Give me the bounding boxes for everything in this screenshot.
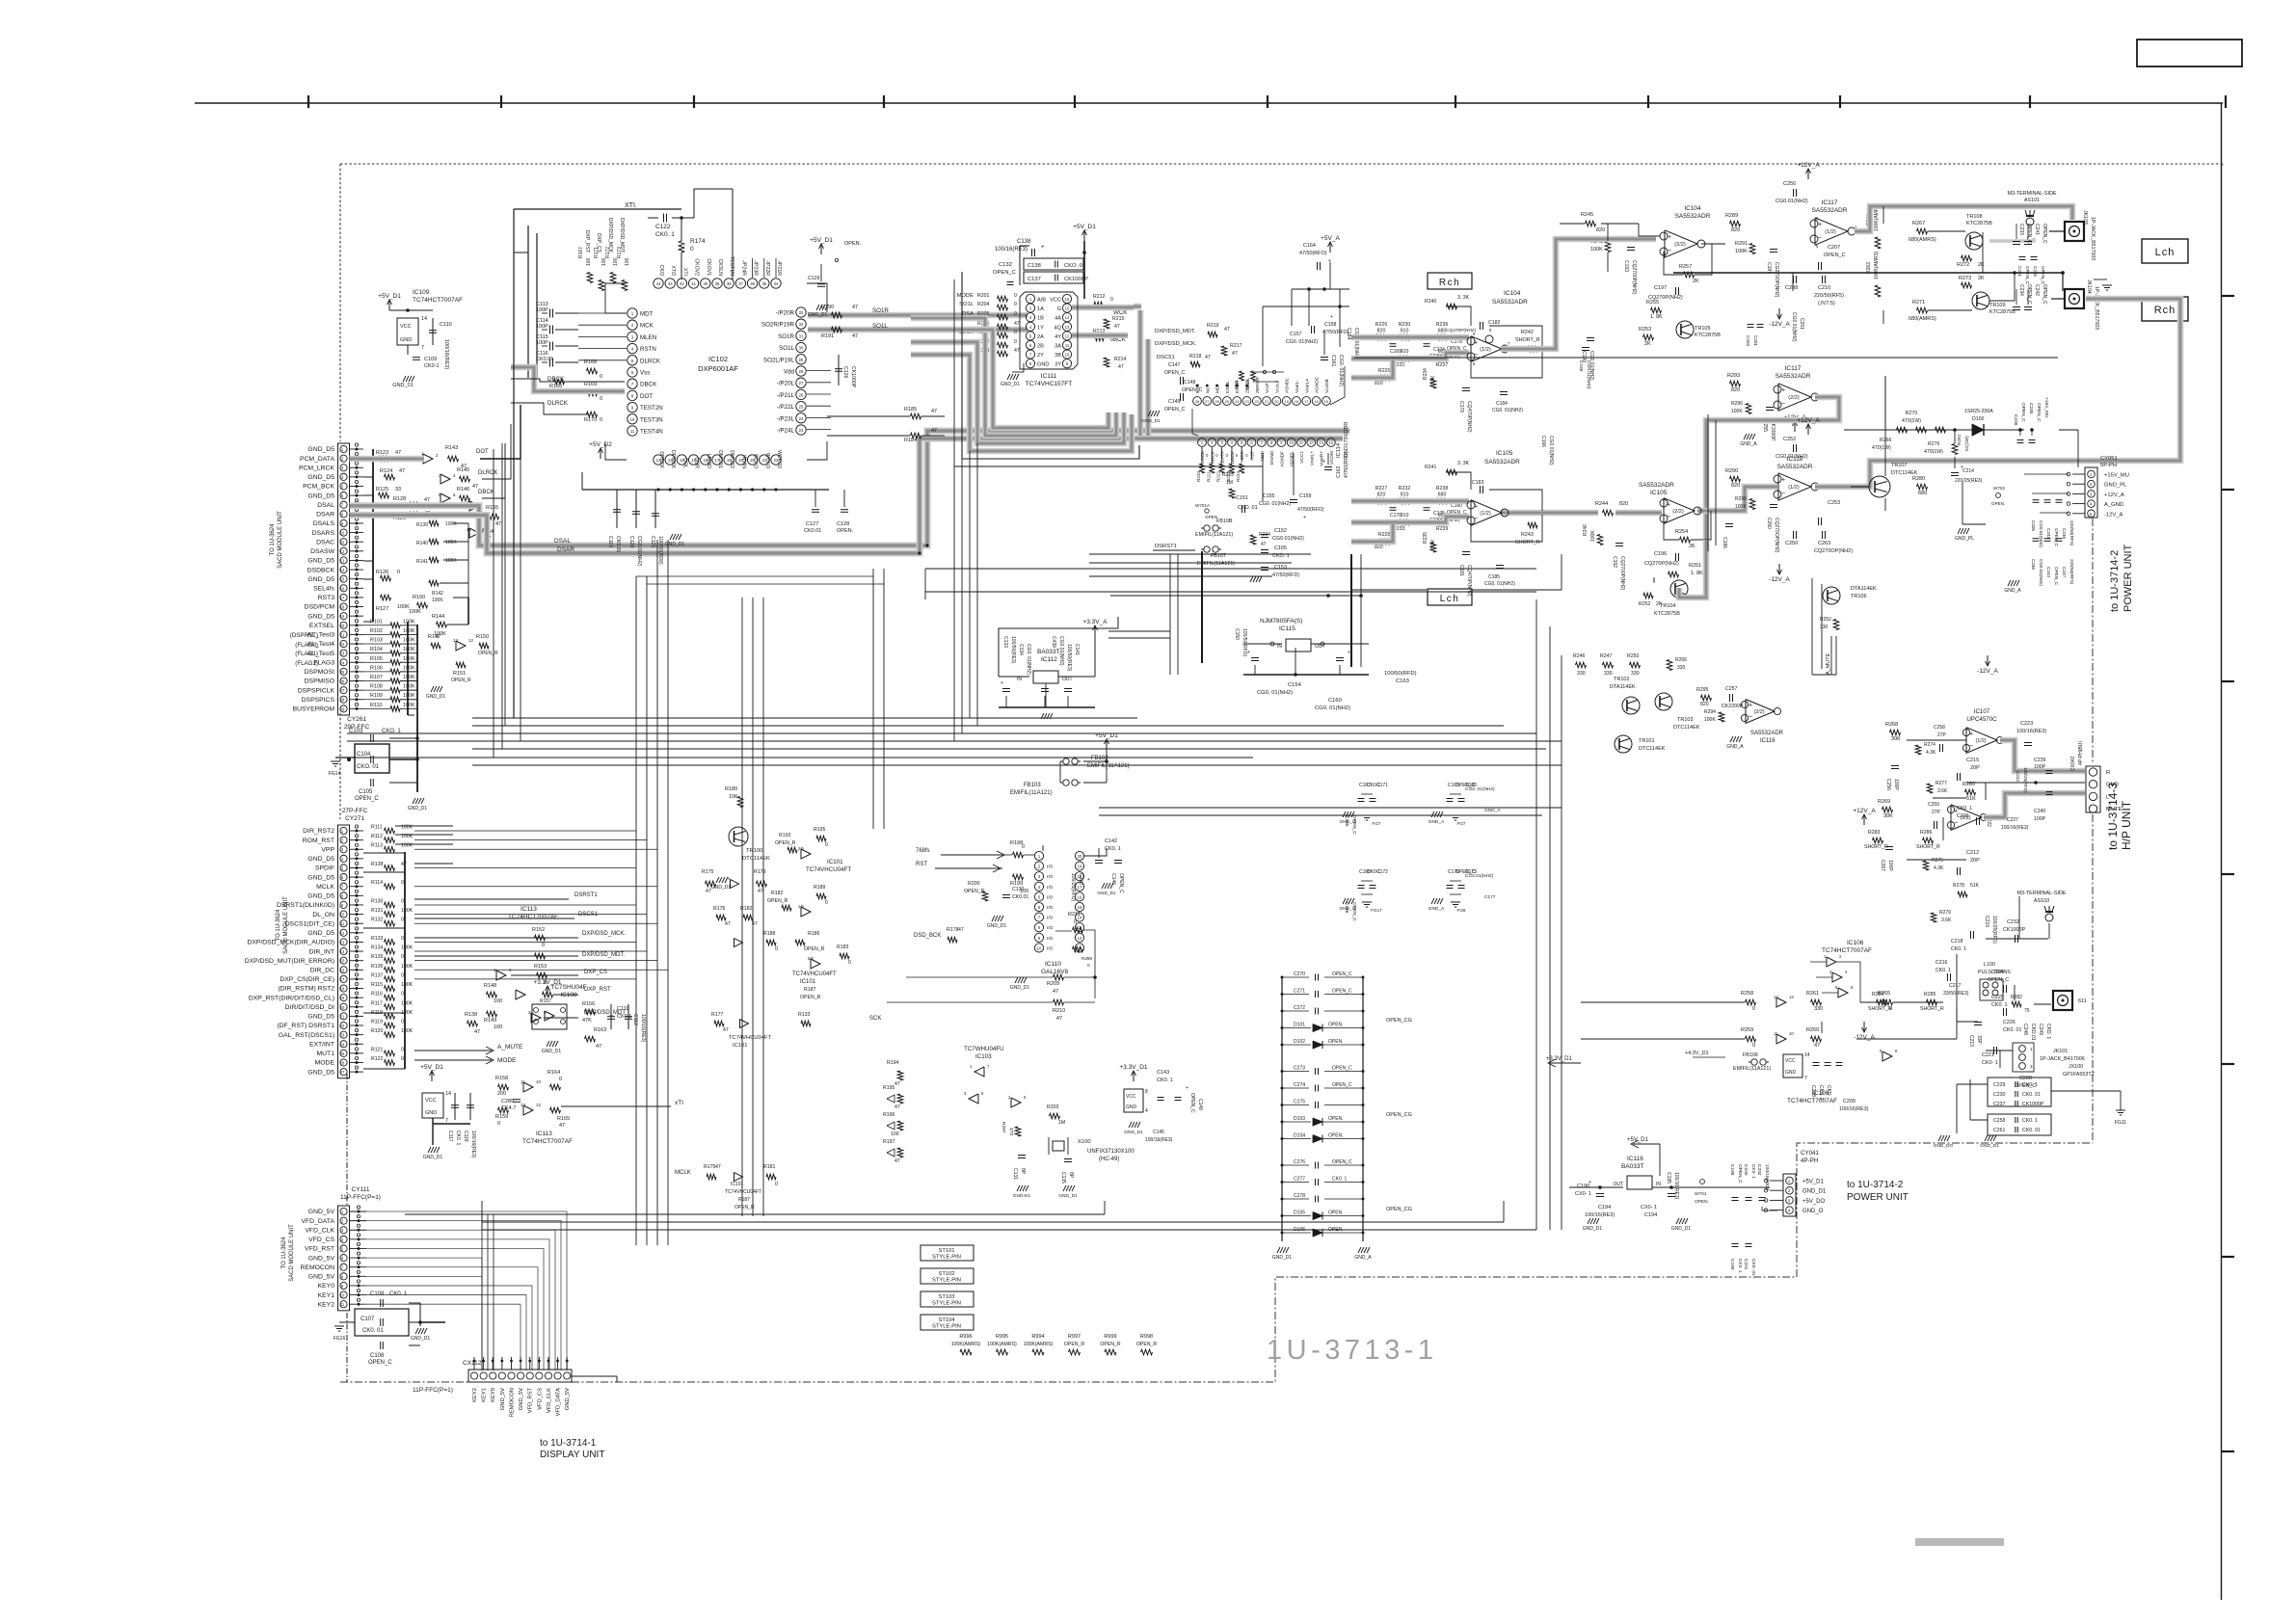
- svg-text:100/50(RFO): 100/50(RFO): [1241, 628, 1247, 657]
- svg-text:R283: R283: [1868, 830, 1881, 836]
- wire ic106 net: [1581, 1001, 1745, 1003]
- svg-text:R155: R155: [486, 505, 498, 511]
- svg-text:0: 0: [1752, 1006, 1755, 1012]
- wire ic102 top stubs: [752, 258, 754, 278]
- board outline top dashed: [340, 163, 2223, 165]
- filter Lch lower R233 R239: [1400, 519, 1410, 525]
- svg-text:C142: C142: [1105, 838, 1117, 844]
- svg-text:GND_D1: GND_D1: [1802, 1189, 1827, 1195]
- svg-text:OUT: OUT: [1315, 644, 1325, 650]
- svg-text:C200: C200: [1743, 1164, 1749, 1176]
- svg-text:R286: R286: [1920, 830, 1933, 836]
- resistor R219: [1208, 332, 1217, 337]
- svg-text:51K: 51K: [1970, 883, 1980, 889]
- svg-text:+: +: [1749, 703, 1752, 709]
- svg-text:R245: R245: [1581, 212, 1593, 218]
- svg-text:CK0. 1: CK0. 1: [389, 1291, 408, 1297]
- resistor R198: [1042, 845, 1044, 851]
- svg-text:13: 13: [521, 1103, 526, 1107]
- inverter IC106f: [1882, 1051, 1892, 1061]
- svg-text:R197: R197: [883, 1139, 895, 1145]
- svg-text:1SR25-200A: 1SR25-200A: [1964, 409, 1993, 414]
- wire channel h3: [347, 732, 1536, 734]
- wire channel h1: [472, 717, 1137, 719]
- svg-text:GND_D5: GND_D5: [307, 558, 334, 565]
- svg-text:CK0- 1: CK0- 1: [1750, 1164, 1756, 1179]
- label +5V_D1 top mid: [820, 245, 822, 254]
- svg-text:C166: C166: [1344, 902, 1349, 914]
- svg-text:C250: C250: [1783, 181, 1796, 187]
- svg-text:OPEN_C: OPEN_C: [2054, 528, 2059, 547]
- ground gnd 129: [816, 305, 819, 310]
- svg-text:GND: GND: [425, 1110, 437, 1116]
- svg-text:ROM_RST: ROM_RST: [303, 838, 334, 844]
- svg-text:OPEN_R: OPEN_R: [964, 889, 985, 894]
- svg-text:R220: R220: [1196, 471, 1201, 482]
- svg-text:GND: GND: [400, 337, 412, 343]
- transistor TR106: [1823, 587, 1840, 604]
- svg-text:+15V_MU: +15V_MU: [2104, 473, 2129, 479]
- svg-text:330: 330: [1604, 671, 1613, 677]
- svg-text:R235: R235: [1423, 532, 1428, 544]
- resistor R144: [437, 622, 447, 627]
- svg-text:7: 7: [1804, 1076, 1807, 1081]
- svg-text:M3-TERMINAL-SIDE: M3-TERMINAL-SIDE: [2017, 891, 2067, 896]
- svg-text:R232: R232: [1399, 486, 1411, 492]
- svg-text:R234: R234: [1423, 368, 1428, 380]
- svg-text:DLRCK: DLRCK: [640, 358, 661, 364]
- svg-text:KTC2875B: KTC2875B: [1695, 333, 1721, 338]
- svg-text:17: 17: [340, 977, 345, 982]
- ground ic102 rail: [670, 534, 673, 540]
- svg-text:R241: R241: [1425, 465, 1437, 470]
- svg-text:C194: C194: [1598, 1205, 1611, 1211]
- svg-text:C205: C205: [2031, 520, 2036, 531]
- svg-text:820: 820: [1619, 501, 1628, 507]
- connector CY261 outline: [338, 443, 350, 715]
- svg-text:C256: C256: [1885, 779, 1891, 790]
- svg-text:820: 820: [1375, 545, 1383, 550]
- svg-text:100: 100: [494, 1024, 502, 1030]
- capacitor C109: [413, 357, 420, 359]
- opamp IC117b: [1778, 384, 1811, 411]
- svg-text:R135: R135: [371, 954, 384, 960]
- wire ic117b out: [1706, 397, 1839, 540]
- svg-text:DISPLAY UNIT: DISPLAY UNIT: [540, 1450, 604, 1460]
- svg-text:100P: 100P: [536, 307, 548, 313]
- svg-text:FG7: FG7: [1457, 821, 1466, 826]
- connector CY111 outline: [338, 1206, 350, 1311]
- svg-text:OPEN_C: OPEN_C: [2054, 567, 2059, 586]
- svg-text:C222: C222: [2016, 771, 2020, 782]
- opamp IC107b: [1951, 805, 1982, 831]
- svg-text:GND_5V: GND_5V: [308, 1209, 335, 1215]
- svg-text:R295: R295: [1696, 687, 1709, 693]
- svg-text:R267: R267: [1912, 221, 1925, 226]
- resistor R293: [1730, 381, 1741, 386]
- svg-text:R243: R243: [1521, 532, 1534, 538]
- svg-text:8P: 8P: [1020, 1168, 1026, 1175]
- svg-text:0: 0: [1014, 293, 1017, 299]
- svg-text:R266: R266: [1880, 438, 1892, 443]
- svg-text:OPEN_R: OPEN_R: [800, 995, 821, 1000]
- svg-text:MLEN: MLEN: [640, 334, 656, 341]
- svg-text:23: 23: [340, 652, 345, 656]
- svg-text:+5V_D1: +5V_D1: [810, 237, 833, 244]
- wire bottom mid rails: [404, 1214, 406, 1230]
- svg-text:32: 32: [799, 322, 804, 327]
- svg-text:23: 23: [340, 1033, 345, 1038]
- svg-text:C230: C230: [1993, 1092, 2006, 1098]
- svg-text:10: 10: [340, 531, 345, 536]
- svg-text:TEST3N: TEST3N: [640, 416, 663, 423]
- svg-text:12: 12: [468, 638, 474, 643]
- svg-text:Lch: Lch: [2155, 247, 2176, 258]
- bus BCK: [1072, 333, 1128, 339]
- svg-text:POWER UNIT: POWER UNIT: [1847, 1192, 1909, 1203]
- svg-text:R294: R294: [1704, 709, 1716, 715]
- svg-text:VCC: VCC: [1785, 1058, 1796, 1064]
- resistor R176 R182: [716, 915, 726, 920]
- resistor R183b: [840, 953, 849, 959]
- capacitor C257m: [1729, 694, 1731, 702]
- svg-text:1P-JACK_B517003: 1P-JACK_B517003: [2090, 217, 2096, 260]
- svg-text:1B: 1B: [1037, 316, 1044, 322]
- svg-text:C273: C273: [1294, 1066, 1305, 1072]
- svg-text:820: 820: [1596, 227, 1605, 233]
- svg-text:42: 42: [680, 281, 684, 286]
- inverter IC109f: [456, 641, 466, 651]
- svg-text:C157: C157: [1290, 332, 1302, 337]
- svg-text:R246: R246: [1573, 653, 1586, 659]
- resistor R155: [489, 514, 499, 519]
- svg-text:C239: C239: [2034, 758, 2046, 763]
- svg-text:0: 0: [401, 1056, 404, 1062]
- svg-text:R227: R227: [1375, 486, 1388, 492]
- svg-text:29: 29: [340, 706, 345, 711]
- svg-text:100K: 100K: [403, 693, 415, 699]
- svg-text:OPEN.: OPEN.: [844, 241, 862, 247]
- svg-text:47/50(RFD): 47/50(RFD): [1272, 572, 1299, 578]
- svg-text:(1/2): (1/2): [1480, 347, 1491, 353]
- wire c10x: [389, 737, 417, 739]
- wire top right rail: [1406, 164, 1408, 206]
- svg-text:+4.3V_D1: +4.3V_D1: [1685, 1051, 1709, 1056]
- resistors R284 R285: [1877, 999, 1887, 1005]
- svg-text:GND_A: GND_A: [1428, 819, 1445, 825]
- svg-text:KTC2875B: KTC2875B: [1654, 611, 1680, 617]
- svg-text:+: +: [1781, 477, 1785, 484]
- svg-text:14: 14: [1065, 315, 1070, 320]
- svg-text:R122: R122: [371, 1056, 384, 1062]
- svg-text:CK0. 1: CK0. 1: [1957, 806, 1972, 811]
- svg-text:CK0- 1: CK0- 1: [1982, 1060, 1998, 1066]
- svg-text:0: 0: [600, 374, 602, 380]
- connector CX112 outline: [468, 1370, 572, 1382]
- svg-text:DSD/PCM: DSD/PCM: [305, 604, 335, 611]
- svg-text:910: 910: [1401, 513, 1409, 519]
- svg-text:40: 40: [703, 281, 707, 286]
- svg-text:11: 11: [340, 1302, 345, 1307]
- svg-text:R994: R994: [1031, 1334, 1044, 1340]
- resistor R126: [381, 575, 391, 581]
- svg-text:31: 31: [799, 333, 804, 338]
- svg-text:17: 17: [1078, 885, 1082, 890]
- svg-text:25: 25: [340, 670, 345, 675]
- svg-text:GND_D1: GND_D1: [1272, 1255, 1293, 1261]
- svg-text:CG270OP(NH2): CG270OP(NH2): [1774, 262, 1779, 298]
- svg-text:47/50(RFO): 47/50(RFO): [1297, 507, 1324, 513]
- svg-text:16: 16: [340, 968, 345, 972]
- svg-text:GND_D5: GND_D5: [307, 492, 334, 499]
- resistor R267: [1917, 228, 1928, 234]
- wire lch vert: [1169, 554, 1171, 675]
- resistor R189: [816, 893, 826, 899]
- svg-text:I/O: I/O: [1047, 916, 1054, 921]
- svg-text:DSAL: DSAL: [317, 502, 334, 509]
- svg-text:I/O: I/O: [1047, 894, 1054, 900]
- svg-text:OPEN_C: OPEN_C: [1164, 407, 1186, 412]
- svg-text:SHORT_R: SHORT_R: [1515, 540, 1540, 545]
- svg-text:22: 22: [340, 1024, 345, 1028]
- svg-text:2K: 2K: [1978, 262, 1985, 268]
- opamp IC105: [1471, 500, 1502, 526]
- svg-text:C138: C138: [1028, 263, 1041, 269]
- svg-text:(1/2): (1/2): [1975, 738, 1986, 744]
- label Lch box: [1428, 589, 1472, 605]
- svg-text:R101: R101: [370, 619, 383, 625]
- svg-text:DTC114EK: DTC114EK: [1673, 725, 1700, 731]
- wire bottom left verticals: [481, 1214, 483, 1370]
- svg-text:C172: C172: [1376, 869, 1388, 875]
- svg-text:OPEN.: OPEN.: [1695, 1199, 1709, 1205]
- wire jack gnd col: [2016, 224, 2017, 239]
- svg-text:36: 36: [750, 281, 755, 286]
- svg-text:SA5532ADR: SA5532ADR: [1750, 731, 1784, 736]
- svg-text:11P-FFC(P=1): 11P-FFC(P=1): [413, 1387, 453, 1394]
- svg-text:-/P21R: -/P21R: [776, 260, 782, 276]
- svg-text:GND_D5: GND_D5: [307, 1069, 334, 1076]
- svg-text:C112: C112: [632, 1014, 638, 1025]
- svg-text:(2/2): (2/2): [1674, 242, 1686, 248]
- connector JK101: [2019, 1046, 2026, 1052]
- svg-text:CK0. 01: CK0. 01: [362, 1328, 384, 1334]
- svg-text:R289: R289: [1725, 213, 1738, 219]
- ground gnd d1 mid: [431, 686, 434, 692]
- svg-text:CKO. 01: CKO. 01: [1064, 263, 1085, 269]
- capacitor C255: [1766, 407, 1774, 409]
- svg-text:TR105: TR105: [1695, 326, 1711, 332]
- capacitor C187: [1770, 249, 1777, 251]
- svg-text:12: 12: [1065, 333, 1070, 338]
- resistor R271: [1917, 307, 1928, 313]
- svg-text:C181: C181: [1458, 565, 1464, 576]
- svg-text:+: +: [1186, 1085, 1188, 1091]
- resistor R290: [1730, 476, 1741, 482]
- svg-text:2K: 2K: [1693, 279, 1699, 284]
- wire channel h7: [472, 764, 1562, 766]
- svg-text:R147: R147: [428, 634, 441, 640]
- svg-text:R183: R183: [837, 945, 849, 950]
- svg-text:20: 20: [340, 624, 345, 628]
- svg-text:+5V_D1: +5V_D1: [1073, 224, 1096, 230]
- svg-text:47: 47: [401, 862, 407, 867]
- svg-text:W701A: W701A: [1195, 503, 1211, 508]
- svg-text:DTA114EK: DTA114EK: [1851, 586, 1877, 592]
- svg-text:IC111: IC111: [1041, 373, 1057, 380]
- capacitor C130: [1002, 894, 1010, 896]
- svg-text:27: 27: [340, 1070, 345, 1075]
- svg-text:680(AMRS): 680(AMRS): [1909, 237, 1936, 243]
- svg-text:R130: R130: [371, 898, 384, 904]
- svg-text:26: 26: [799, 392, 804, 397]
- svg-text:100K: 100K: [1590, 247, 1603, 253]
- power flag +5V_D2: [600, 449, 601, 459]
- wire channel h5: [472, 748, 1546, 750]
- svg-text:GND_D1: GND_D1: [1097, 891, 1116, 896]
- svg-text:47: 47: [395, 450, 401, 456]
- wire ba033: [1569, 1186, 1623, 1188]
- svg-text:28: 28: [340, 698, 345, 703]
- page border top tick marks: [307, 95, 309, 108]
- svg-text:330: 330: [1631, 671, 1640, 677]
- svg-text:24: 24: [340, 660, 345, 665]
- svg-text:C260: C260: [1766, 518, 1772, 529]
- resistor R190: [832, 312, 842, 318]
- svg-text:GND_A: GND_A: [1354, 1255, 1372, 1261]
- svg-text:7: 7: [445, 1118, 448, 1124]
- svg-text:47: 47: [1224, 327, 1230, 333]
- svg-text:C228: C228: [2019, 1076, 2032, 1081]
- svg-text:R296: R296: [1731, 401, 1743, 407]
- svg-text:I/O: I/O: [1047, 905, 1054, 911]
- svg-text:47: 47: [715, 1164, 721, 1170]
- svg-text:BA033T: BA033T: [1621, 1163, 1644, 1170]
- svg-text:100K: 100K: [445, 521, 457, 527]
- svg-text:C247: C247: [2062, 567, 2067, 577]
- transistor TR1C4: [1670, 580, 1688, 598]
- svg-text:OPEN_C: OPEN_C: [1351, 902, 1357, 921]
- resistor R254: [1680, 537, 1691, 543]
- svg-text:+5V_A: +5V_A: [1321, 235, 1340, 242]
- svg-text:0: 0: [401, 898, 404, 904]
- svg-text:C275: C275: [1294, 1100, 1305, 1105]
- connector CX112 pins: [470, 1372, 477, 1379]
- bus DSAL: [350, 431, 1350, 545]
- svg-text:0: 0: [825, 900, 828, 906]
- svg-text:13: 13: [340, 558, 345, 563]
- svg-text:R116: R116: [371, 992, 383, 998]
- capacitor C193: [1627, 247, 1635, 249]
- wire dsd in: [1201, 447, 1203, 459]
- svg-text:R200: R200: [968, 881, 980, 887]
- wire rst line: [935, 867, 1002, 869]
- svg-text:(HC-49): (HC-49): [1099, 1157, 1119, 1162]
- svg-text:TR108: TR108: [1966, 214, 1983, 220]
- svg-text:100K: 100K: [1735, 249, 1748, 254]
- resistor R263: [1875, 285, 1881, 297]
- svg-text:0: 0: [690, 246, 694, 253]
- inverter IC106a: [1827, 957, 1836, 967]
- resistor R215: [1104, 319, 1109, 329]
- svg-text:C160: C160: [1328, 698, 1342, 704]
- IC110 pins: [1034, 851, 1043, 860]
- svg-text:CG0. 01(NH2): CG0. 01(NH2): [1026, 644, 1031, 675]
- connector CY271 pins: [340, 827, 347, 834]
- svg-text:R169: R169: [584, 382, 597, 387]
- svg-text:-12V_A: -12V_A: [1854, 1034, 1875, 1041]
- svg-text:DLRCK: DLRCK: [478, 470, 497, 476]
- svg-text:C241: C241: [2034, 224, 2040, 235]
- svg-text:25: 25: [1225, 399, 1230, 404]
- svg-text:IC116: IC116: [1760, 738, 1775, 744]
- svg-text:100K: 100K: [403, 647, 415, 652]
- svg-text:TC74HCT7007AF: TC74HCT7007AF: [508, 914, 558, 920]
- svg-text:100K: 100K: [445, 558, 457, 564]
- capacitor C196: [1675, 553, 1677, 561]
- svg-text:13: 13: [1789, 995, 1794, 999]
- svg-text:100K: 100K: [403, 703, 415, 708]
- svg-text:10: 10: [1289, 440, 1294, 445]
- svg-text:ST104: ST104: [938, 1317, 955, 1323]
- svg-text:CY041: CY041: [1801, 1150, 1819, 1157]
- svg-text:GND_D5: GND_D5: [307, 474, 334, 481]
- svg-text:R188: R188: [763, 931, 776, 937]
- svg-text:C201: C201: [1799, 318, 1804, 330]
- svg-text:OPEN_R: OPEN_R: [775, 840, 796, 846]
- capacitor C146: [1114, 860, 1122, 862]
- resistor R277: [1927, 784, 1933, 793]
- svg-text:TO 1U-3624: TO 1U-3624: [276, 909, 281, 942]
- svg-text:IC101: IC101: [827, 859, 843, 865]
- svg-text:OPEN_C: OPEN_C: [368, 1360, 392, 1366]
- svg-text:FB10B: FB10B: [1216, 519, 1233, 524]
- svg-text:12: 12: [1078, 936, 1082, 941]
- svg-text:CQ470P(NH2): CQ470P(NH2): [1466, 401, 1472, 433]
- svg-text:−: −: [1818, 235, 1822, 242]
- svg-text:C243: C243: [2046, 528, 2051, 539]
- svg-text:17: 17: [340, 596, 345, 600]
- inverter IC109d: [469, 501, 479, 511]
- terminal AS103: [2045, 914, 2053, 921]
- wire vertical bundle C: [872, 569, 874, 829]
- svg-text:27: 27: [1205, 399, 1210, 404]
- svg-text:-12V_A: -12V_A: [1769, 321, 1790, 328]
- transistor TR108: [1965, 232, 1983, 250]
- wire vertical bundle B: [741, 598, 743, 1216]
- inverter IC101a: [801, 849, 811, 859]
- svg-text:16: 16: [1065, 297, 1070, 302]
- svg-text:100P: 100P: [2034, 764, 2046, 770]
- resistor R181: [766, 1174, 776, 1180]
- svg-text:0: 0: [497, 1121, 500, 1127]
- svg-text:R175: R175: [704, 1164, 716, 1170]
- svg-text:C131: C131: [1012, 1168, 1018, 1180]
- svg-text:100P: 100P: [2034, 816, 2046, 822]
- svg-text:X100: X100: [1078, 1139, 1091, 1145]
- svg-text:DXP/DSD_MCK(DIR_AUDIO): DXP/DSD_MCK(DIR_AUDIO): [247, 940, 334, 946]
- svg-text:OPEN_C: OPEN_C: [1351, 815, 1357, 835]
- svg-text:C107: C107: [360, 1317, 375, 1322]
- svg-text:DSRST1: DSRST1: [1155, 544, 1177, 549]
- IC115 caps: [1243, 643, 1282, 645]
- svg-text:DIR_INT: DIR_INT: [309, 948, 334, 955]
- svg-text:C271: C271: [1294, 989, 1305, 995]
- power flag +3.3V_D1 a: [547, 987, 548, 997]
- svg-text:C138: C138: [1017, 239, 1031, 245]
- svg-text:D102: D102: [1294, 1039, 1305, 1045]
- svg-text:C121: C121: [650, 536, 655, 548]
